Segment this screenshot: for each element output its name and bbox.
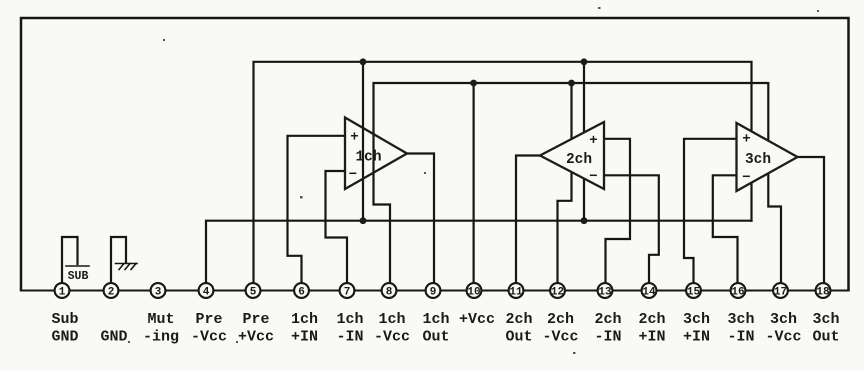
svg-text:Pre: Pre: [195, 311, 222, 328]
svg-text:3ch: 3ch: [727, 311, 754, 328]
svg-text:1ch: 1ch: [378, 311, 405, 328]
svg-text:2ch: 2ch: [505, 311, 532, 328]
svg-text:+: +: [589, 133, 597, 149]
svg-text:-IN: -IN: [336, 329, 363, 346]
svg-text:+Vcc: +Vcc: [238, 329, 274, 346]
svg-text:+Vcc: +Vcc: [459, 311, 495, 328]
svg-text:3ch: 3ch: [812, 311, 839, 328]
svg-text:1ch: 1ch: [291, 311, 318, 328]
svg-text:-IN: -IN: [594, 329, 621, 346]
svg-text:+IN: +IN: [683, 329, 710, 346]
svg-text:GND: GND: [100, 329, 127, 346]
svg-text:13: 13: [598, 287, 612, 299]
svg-text:3: 3: [155, 287, 162, 299]
svg-text:Out: Out: [505, 329, 532, 346]
svg-text:-Vcc: -Vcc: [374, 329, 410, 346]
svg-text:-Vcc: -Vcc: [191, 329, 227, 346]
svg-text:-Vcc: -Vcc: [542, 329, 578, 346]
svg-text:+IN: +IN: [638, 329, 665, 346]
svg-text:3ch: 3ch: [683, 311, 710, 328]
svg-text:2ch: 2ch: [566, 152, 592, 168]
svg-text:+: +: [350, 130, 358, 146]
svg-text:-ing: -ing: [143, 329, 179, 346]
svg-text:4: 4: [203, 287, 210, 299]
svg-text:6: 6: [298, 287, 305, 299]
svg-text:Sub: Sub: [51, 311, 78, 328]
svg-text:15: 15: [687, 287, 701, 299]
svg-text:−: −: [349, 167, 357, 183]
svg-text:2: 2: [108, 287, 115, 299]
svg-text:16: 16: [731, 287, 744, 299]
svg-text:7: 7: [344, 287, 351, 299]
svg-text:1ch: 1ch: [422, 311, 449, 328]
svg-text:-IN: -IN: [727, 329, 754, 346]
svg-text:1ch: 1ch: [355, 150, 381, 166]
svg-text:18: 18: [816, 287, 830, 299]
svg-text:+: +: [742, 132, 750, 148]
svg-text:5: 5: [250, 287, 257, 299]
svg-text:9: 9: [430, 287, 437, 299]
svg-text:Mut: Mut: [147, 311, 174, 328]
svg-text:11: 11: [509, 287, 523, 299]
svg-text:−: −: [589, 169, 597, 185]
svg-text:2ch: 2ch: [547, 311, 574, 328]
svg-text:Pre: Pre: [242, 311, 269, 328]
svg-text:8: 8: [386, 287, 393, 299]
svg-text:GND: GND: [51, 329, 78, 346]
svg-text:Out: Out: [812, 329, 839, 346]
svg-text:1: 1: [59, 287, 66, 299]
svg-text:14: 14: [642, 287, 656, 299]
svg-text:12: 12: [551, 287, 564, 299]
svg-text:3ch: 3ch: [770, 311, 797, 328]
svg-text:−: −: [742, 170, 750, 186]
svg-text:17: 17: [774, 287, 787, 299]
svg-text:3ch: 3ch: [745, 152, 771, 168]
svg-text:+IN: +IN: [291, 329, 318, 346]
svg-text:-Vcc: -Vcc: [765, 329, 801, 346]
svg-text:SUB: SUB: [68, 270, 89, 283]
svg-text:2ch: 2ch: [638, 311, 665, 328]
svg-text:10: 10: [467, 287, 480, 299]
svg-text:1ch: 1ch: [336, 311, 363, 328]
svg-text:2ch: 2ch: [594, 311, 621, 328]
svg-text:Out: Out: [422, 329, 449, 346]
